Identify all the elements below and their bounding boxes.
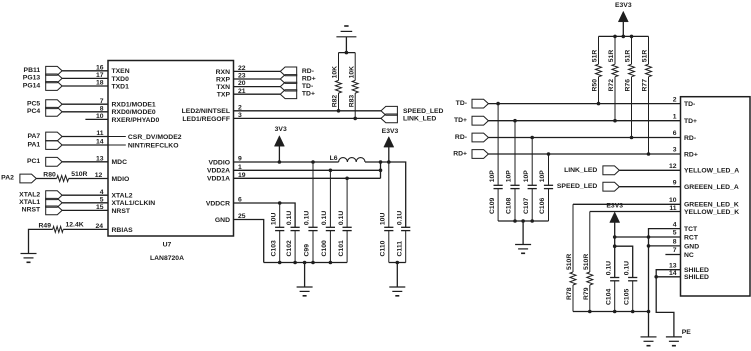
svg-text:LAN8720A: LAN8720A — [150, 255, 184, 262]
wire U7 pin 21 to port TD+ — [234, 93, 281, 95]
wire PG13 to U7 — [62, 77, 108, 79]
port XTAL2 — [19, 191, 62, 200]
wire 10P rail to ground — [522, 221, 524, 245]
svg-text:SPEED_LED: SPEED_LED — [557, 183, 598, 190]
port LINK_LED (to pin 12) — [564, 166, 619, 175]
svg-text:LINK_LED: LINK_LED — [403, 116, 436, 123]
svg-text:R80: R80 — [43, 172, 56, 179]
svg-text:10K: 10K — [348, 66, 355, 79]
svg-text:7: 7 — [100, 98, 104, 105]
svg-text:E3V3: E3V3 — [606, 202, 623, 209]
wire U7 pin 20 to port TD- — [234, 86, 281, 88]
svg-text:510R: 510R — [71, 171, 87, 178]
svg-text:TXEN: TXEN — [112, 68, 130, 75]
connector J1 body — [681, 97, 751, 296]
wire PC5 to U7 — [62, 103, 108, 105]
svg-text:10: 10 — [669, 197, 677, 204]
resistor R76 — [625, 36, 635, 137]
capacitor C100 — [321, 170, 335, 262]
inductor L6 — [330, 155, 365, 162]
port RD+ (right section) — [453, 150, 488, 159]
port PG14 — [23, 82, 62, 91]
wire E3V3 stem (middle) — [388, 147, 390, 162]
svg-text:14: 14 — [669, 270, 677, 277]
svg-text:GND: GND — [684, 243, 699, 250]
port RD- — [280, 67, 314, 76]
svg-text:PA1: PA1 — [27, 141, 40, 148]
svg-text:0.1U: 0.1U — [321, 211, 328, 225]
svg-text:RCT: RCT — [684, 234, 699, 241]
svg-text:15: 15 — [96, 204, 104, 211]
junction C10x/TD+ — [513, 119, 517, 123]
port TD+ — [280, 90, 315, 99]
svg-text:24: 24 — [96, 223, 104, 230]
wire connector pins 13/14 SHILED to PE ground — [656, 270, 680, 337]
wire connector pin 10 to R78 — [573, 203, 681, 205]
junction R5x/RD+ — [647, 152, 651, 156]
capacitor C107 — [523, 138, 537, 222]
svg-text:3: 3 — [673, 147, 677, 154]
svg-text:0.1U: 0.1U — [338, 211, 345, 225]
capacitor C106 — [539, 154, 553, 221]
resistor R72 — [608, 36, 618, 120]
svg-text:VDDCR: VDDCR — [206, 200, 230, 207]
junction C99/row9 — [311, 160, 315, 164]
svg-text:4: 4 — [673, 221, 677, 228]
junction bar/R76 — [630, 35, 634, 39]
port TD- (right section) — [456, 99, 489, 108]
wire PA7 to U7 — [62, 136, 108, 138]
svg-text:10P: 10P — [489, 170, 496, 183]
wire connector pin 4 TCT — [649, 229, 681, 312]
resistor R78 — [566, 204, 576, 311]
port PC1 — [27, 157, 62, 166]
junction rail R79 — [588, 310, 592, 314]
port PB11 — [24, 66, 63, 75]
wire LINK_LED to connector pin 12 — [619, 169, 680, 171]
svg-text:13: 13 — [669, 262, 677, 269]
port SPEED_LED — [381, 106, 444, 115]
svg-text:SHILED: SHILED — [684, 267, 709, 274]
junction R5x/RD- — [630, 136, 634, 140]
power E3V3 arrow (bottom) — [610, 212, 620, 223]
port PC4 — [27, 107, 62, 116]
junction 10P rail stem — [521, 219, 525, 223]
ground below 10P caps — [515, 244, 531, 246]
wire connector pin 11 to R79 — [590, 211, 681, 213]
wire U7 pin 6 VDDCR to C103/C102 — [234, 203, 296, 227]
svg-text:16: 16 — [96, 64, 104, 71]
svg-text:E3V3: E3V3 — [615, 2, 632, 9]
svg-text:TXP: TXP — [217, 92, 231, 99]
svg-text:NRST: NRST — [22, 207, 41, 214]
wire connector pin 8 GND — [649, 245, 681, 247]
IC U7 LAN8720A body — [108, 61, 234, 237]
svg-text:E3V3: E3V3 — [382, 128, 399, 135]
svg-text:51R: 51R — [592, 50, 599, 63]
wire U7 pin 2 LED2/NINTSEL to SPEED_LED — [234, 110, 382, 112]
wire ground to R49 — [29, 229, 53, 253]
svg-text:51R: 51R — [625, 50, 632, 63]
port RD- (right section) — [455, 133, 488, 142]
wire bottom ground rail — [573, 311, 649, 313]
svg-text:12: 12 — [669, 163, 677, 170]
svg-text:3: 3 — [238, 112, 242, 119]
svg-text:NC: NC — [684, 252, 694, 259]
port TD- — [280, 82, 313, 91]
svg-text:10: 10 — [96, 113, 104, 120]
svg-text:R83: R83 — [348, 95, 355, 108]
junction bar/R72 — [613, 35, 617, 39]
wire RD- to connector pin 6 — [488, 137, 680, 139]
svg-text:PC4: PC4 — [27, 108, 40, 115]
svg-text:3V3: 3V3 — [275, 126, 287, 133]
wire PA1 to U7 — [62, 144, 108, 146]
junction rail C99 — [311, 261, 315, 265]
svg-text:RBIAS: RBIAS — [112, 227, 134, 234]
svg-text:2: 2 — [673, 96, 677, 103]
svg-text:PA2: PA2 — [1, 174, 14, 181]
power E3V3 arrow (middle) — [384, 137, 394, 148]
ground bottom right 2 (PE) — [666, 336, 682, 338]
ground below C99 rail — [297, 286, 313, 288]
svg-text:RD-: RD- — [684, 135, 696, 142]
svg-text:C106: C106 — [539, 198, 546, 214]
svg-text:10K: 10K — [332, 66, 339, 79]
wire ground to R82/R83 bar — [345, 37, 347, 53]
junction rail C105 — [631, 310, 635, 314]
junction C10x/RD+ — [547, 152, 551, 156]
svg-text:TD+: TD+ — [684, 118, 697, 125]
svg-text:10P: 10P — [523, 170, 530, 183]
svg-text:10U: 10U — [270, 213, 277, 226]
svg-text:R72: R72 — [608, 79, 615, 92]
junction R83/LED1 row — [353, 117, 357, 121]
junction rail down — [647, 310, 651, 314]
junction pin8/vertical — [647, 244, 651, 248]
wire XTAL2 to U7 — [62, 194, 108, 196]
svg-text:4: 4 — [100, 189, 104, 196]
svg-text:510R: 510R — [566, 254, 573, 270]
IC U7 right pin name labels — [182, 69, 231, 224]
wire bar over R82/R83 — [339, 52, 356, 54]
resistor R82 — [332, 53, 342, 111]
junction rail stem — [303, 261, 307, 265]
junction 10P rail C107 — [530, 219, 534, 223]
wire 51R top bar — [599, 35, 649, 37]
svg-text:10P: 10P — [506, 170, 513, 183]
svg-text:PB11: PB11 — [24, 67, 41, 74]
wire U7 pin 3 LED1/REGOFF to LINK_LED — [234, 117, 382, 119]
wire connector pin 7 NC stub — [665, 254, 680, 256]
svg-text:XTAL1: XTAL1 — [19, 199, 40, 206]
svg-text:12: 12 — [95, 172, 103, 179]
wire 10P ground rail — [498, 220, 548, 222]
svg-text:C101: C101 — [338, 240, 345, 256]
junction rail C104 — [613, 310, 617, 314]
svg-text:R50: R50 — [592, 79, 599, 92]
svg-text:9: 9 — [673, 179, 677, 186]
svg-text:9: 9 — [238, 156, 242, 163]
svg-text:R82: R82 — [332, 95, 339, 108]
port XTAL1 — [19, 198, 62, 207]
svg-text:C102: C102 — [286, 240, 293, 256]
port PA1 — [27, 141, 62, 150]
wire SPEED_LED to connector pin 9 — [619, 186, 680, 188]
svg-text:C107: C107 — [523, 198, 530, 214]
svg-text:RD+: RD+ — [302, 76, 316, 83]
port PC5 — [27, 100, 62, 109]
svg-text:NINT/REFCLKO: NINT/REFCLKO — [128, 142, 179, 149]
svg-text:RXER/PHYAD0: RXER/PHYAD0 — [112, 117, 160, 124]
svg-text:RD-: RD- — [455, 134, 467, 141]
svg-text:VDD1A: VDD1A — [207, 176, 230, 183]
junction rail2 stem — [396, 261, 400, 265]
junction rail C100 — [329, 261, 333, 265]
svg-text:23: 23 — [238, 73, 246, 80]
svg-text:RXD1/MODE1: RXD1/MODE1 — [112, 102, 156, 109]
wire connector pin 14 SHILED — [656, 276, 680, 278]
svg-text:PA7: PA7 — [27, 133, 40, 140]
junction E3V3/C110/row9 — [387, 160, 391, 164]
wire PA2 to R80 — [36, 178, 56, 180]
svg-text:XTAL1/CLKIN: XTAL1/CLKIN — [112, 200, 156, 207]
svg-text:14: 14 — [96, 139, 104, 146]
junction stem/C105 branch — [613, 244, 617, 248]
wire rail2 to ground — [396, 263, 398, 288]
wire L6 to C111 corner — [365, 162, 406, 227]
wire connector pin 5 RCT — [615, 236, 681, 238]
wire U7 pin 23 to port RD+ — [234, 78, 281, 80]
capacitor C103 — [270, 203, 284, 263]
svg-text:C99: C99 — [304, 244, 311, 257]
junction E3V3/RCT — [613, 235, 617, 239]
svg-text:RXN: RXN — [216, 69, 230, 76]
svg-text:510R: 510R — [583, 254, 590, 270]
wire cap ground rail — [264, 262, 347, 264]
svg-text:21: 21 — [238, 88, 246, 95]
svg-text:YELLOW_LED_A: YELLOW_LED_A — [684, 168, 739, 175]
svg-text:PG13: PG13 — [23, 75, 41, 82]
wire PB11 to U7 — [62, 70, 108, 72]
svg-text:0.1U: 0.1U — [605, 261, 612, 275]
svg-text:18: 18 — [96, 80, 104, 87]
capacitor C105 — [623, 261, 637, 312]
svg-text:XTAL2: XTAL2 — [112, 193, 133, 200]
svg-text:TXN: TXN — [216, 84, 230, 91]
resistor R77 — [642, 36, 652, 154]
svg-text:MDIO: MDIO — [112, 176, 130, 183]
svg-text:LED1/REGOFF: LED1/REGOFF — [182, 116, 230, 123]
port PG13 — [23, 74, 62, 83]
svg-text:RD+: RD+ — [684, 151, 698, 158]
svg-text:7: 7 — [673, 247, 677, 254]
junction C10x/TD- — [496, 102, 500, 106]
svg-text:C109: C109 — [489, 198, 496, 214]
wire C105 branch — [615, 246, 633, 277]
wire 3V3 stem — [278, 146, 280, 162]
svg-text:TD-: TD- — [302, 83, 313, 90]
svg-text:51R: 51R — [642, 50, 649, 63]
junction C103/row6 — [278, 201, 282, 205]
resistor R80 — [43, 171, 87, 182]
wire U7 pin 25 GND down — [234, 220, 264, 263]
wire PC1 to U7 — [62, 161, 108, 163]
capacitor C109 — [489, 104, 503, 221]
svg-text:TXD1: TXD1 — [112, 83, 130, 90]
wire XTAL1 to U7 — [62, 202, 108, 204]
junction R5x/TD+ — [613, 119, 617, 123]
svg-text:13: 13 — [96, 155, 104, 162]
wire internal stub pin 11 — [108, 136, 126, 138]
svg-text:6: 6 — [238, 197, 242, 204]
svg-text:YELLOW_LED_K: YELLOW_LED_K — [684, 209, 739, 216]
junction rail C103 — [278, 261, 282, 265]
svg-text:25: 25 — [238, 213, 246, 220]
svg-text:1: 1 — [673, 113, 677, 120]
svg-text:TD+: TD+ — [302, 91, 315, 98]
svg-text:U7: U7 — [163, 242, 172, 249]
wire TD+ to connector pin 1 — [488, 120, 680, 122]
svg-text:20: 20 — [238, 80, 246, 87]
ground below R49 — [21, 253, 37, 255]
svg-text:C103: C103 — [270, 240, 277, 256]
resistor R50 — [592, 36, 602, 103]
svg-text:6: 6 — [673, 130, 677, 137]
ground symbol above R82/R83 (inverted) — [336, 36, 356, 38]
resistor R49 — [39, 222, 84, 233]
wire TD- to connector pin 2 — [488, 103, 680, 105]
junction E3V3 bar — [622, 35, 626, 39]
wire stub U7 pin 10 RXER — [85, 118, 108, 120]
svg-text:R49: R49 — [39, 222, 52, 229]
wire U7 pin 22 to port RD- — [234, 70, 281, 72]
wire E3V3 stem to bar — [622, 22, 624, 37]
junction R82/LED2 row — [337, 109, 341, 113]
svg-text:TXD0: TXD0 — [112, 76, 130, 83]
svg-text:51R: 51R — [608, 50, 615, 63]
svg-text:LINK_LED: LINK_LED — [564, 167, 597, 174]
svg-text:22: 22 — [238, 65, 246, 72]
capacitor C108 — [506, 121, 520, 221]
port PA7 — [27, 132, 62, 141]
svg-text:RXP: RXP — [216, 76, 230, 83]
svg-text:12.4K: 12.4K — [66, 222, 84, 229]
capacitor C111 — [396, 211, 410, 263]
svg-text:C111: C111 — [396, 241, 403, 257]
junction C101/row19 — [345, 177, 349, 181]
svg-text:C110: C110 — [380, 240, 387, 256]
svg-text:10U: 10U — [380, 213, 387, 226]
svg-text:GND: GND — [215, 217, 230, 224]
wire tie row9-row19 — [380, 162, 382, 178]
svg-text:PC1: PC1 — [27, 158, 40, 165]
wire rail to ground 1 — [648, 312, 650, 337]
junction tie/row9 — [379, 160, 383, 164]
wire R80 to U7 pin 12 — [69, 178, 108, 180]
svg-text:10P: 10P — [539, 170, 546, 183]
junction R5x/TD- — [597, 102, 601, 106]
svg-text:0.1U: 0.1U — [304, 211, 311, 225]
svg-text:0.1U: 0.1U — [286, 211, 293, 225]
svg-text:5: 5 — [100, 196, 104, 203]
svg-text:R79: R79 — [583, 287, 590, 300]
svg-text:RXD0/MODE0: RXD0/MODE0 — [112, 109, 156, 116]
svg-text:TD+: TD+ — [454, 117, 467, 124]
svg-text:0.1U: 0.1U — [396, 211, 403, 225]
junction bar/stem — [345, 51, 349, 55]
svg-text:17: 17 — [96, 72, 104, 79]
port NRST — [22, 206, 62, 215]
wire U7 pin 19 VDD1A rail — [234, 177, 381, 179]
svg-text:GREEEN_LED_K: GREEEN_LED_K — [684, 202, 739, 209]
IC U7 left pin name labels — [112, 68, 160, 234]
svg-text:8: 8 — [100, 105, 104, 112]
port RD+ — [280, 75, 315, 84]
junction C10x/RD- — [530, 136, 534, 140]
ground below C110/C111 — [389, 286, 405, 288]
svg-text:2: 2 — [238, 104, 242, 111]
svg-text:MDC: MDC — [112, 159, 128, 166]
port SPEED_LED (to pin 9) — [557, 182, 619, 191]
connector pin name labels — [684, 101, 739, 281]
power E3V3 arrow (top) — [618, 11, 628, 21]
svg-text:11: 11 — [96, 130, 103, 137]
svg-text:TD-: TD- — [684, 101, 695, 108]
svg-text:C108: C108 — [506, 198, 513, 214]
svg-text:5: 5 — [673, 230, 677, 237]
wire E3V3 stem down — [614, 223, 616, 278]
wire PG14 to U7 — [62, 85, 108, 87]
svg-text:R77: R77 — [642, 79, 649, 92]
power 3V3 arrow — [274, 136, 284, 147]
svg-text:CSR_DV/MODE2: CSR_DV/MODE2 — [128, 134, 182, 141]
svg-text:11: 11 — [669, 205, 676, 212]
junction rail C102 — [293, 261, 297, 265]
capacitor C102 — [286, 211, 300, 263]
junction 10P rail C108 — [513, 219, 517, 223]
wire internal stub pin 14 — [108, 144, 126, 146]
svg-text:XTAL2: XTAL2 — [19, 192, 40, 199]
port TD+ (right section) — [454, 116, 488, 125]
junction 3V3/row9 — [278, 160, 282, 164]
svg-text:C104: C104 — [605, 289, 612, 305]
svg-text:R78: R78 — [566, 287, 573, 300]
junction SHILED — [654, 275, 658, 279]
svg-text:SHILED: SHILED — [684, 274, 709, 281]
svg-text:RD-: RD- — [302, 68, 314, 75]
capacitor C110 — [380, 162, 394, 263]
svg-text:SPEED_LED: SPEED_LED — [403, 108, 444, 115]
wire C110/C111 ground rail — [389, 262, 406, 264]
svg-text:TD-: TD- — [456, 100, 467, 107]
svg-text:1: 1 — [238, 164, 242, 171]
wire RD+ to connector pin 3 — [488, 153, 680, 155]
port PA2 — [1, 174, 36, 183]
svg-text:TCT: TCT — [684, 226, 698, 233]
svg-text:C100: C100 — [321, 240, 328, 256]
junction tie/row1 — [379, 169, 383, 173]
capacitor C99 — [304, 162, 318, 263]
svg-text:GREEEN_LED_A: GREEEN_LED_A — [684, 184, 739, 191]
svg-text:PG14: PG14 — [23, 82, 41, 89]
svg-text:L6: L6 — [330, 155, 338, 162]
svg-text:VDD2A: VDD2A — [207, 168, 230, 175]
svg-text:C105: C105 — [623, 289, 630, 305]
svg-text:PE: PE — [682, 329, 692, 336]
junction C100/row1 — [329, 169, 333, 173]
svg-text:RD+: RD+ — [453, 151, 467, 158]
